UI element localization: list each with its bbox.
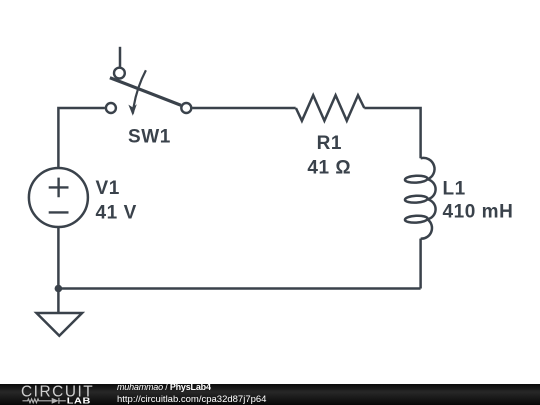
switch arrow arc	[133, 70, 146, 113]
switch arrowhead	[128, 104, 136, 116]
inductor L1	[405, 158, 436, 239]
bottom wire rail	[58, 287, 420, 290]
svg-text:R1: R1	[317, 133, 342, 154]
switch SW1 blade	[110, 78, 181, 106]
resistor R1	[296, 95, 364, 121]
wire top stub of switch	[119, 47, 122, 68]
switch pivot circle	[114, 68, 125, 79]
logo squiggle: wire, resistor, diode	[23, 398, 66, 404]
svg-text:LAB: LAB	[67, 396, 91, 405]
CircuitLab logo	[0, 384, 120, 405]
wire junction to ground	[57, 289, 60, 313]
footer text line 2	[117, 395, 266, 405]
wire from resistor to right corner down to inductor	[364, 108, 420, 158]
svg-text:SW1: SW1	[128, 127, 171, 148]
switch left contact	[106, 103, 116, 113]
footer bar	[0, 384, 540, 405]
svg-text:41 Ω: 41 Ω	[307, 157, 351, 178]
footer text line 1	[117, 383, 211, 393]
svg-text:410 mH: 410 mH	[443, 202, 514, 223]
svg-text:41 V: 41 V	[96, 202, 137, 223]
wire from right switch contact to resistor	[192, 107, 295, 110]
svg-text:L1: L1	[443, 179, 466, 200]
wire from inductor bottom to bottom rail	[419, 239, 422, 289]
ground	[37, 313, 83, 336]
switch right contact	[181, 103, 191, 113]
voltage source V1	[29, 168, 88, 227]
svg-text:V1: V1	[96, 178, 120, 199]
wire V1 bottom to junction	[57, 226, 60, 288]
wire from left switch contact to V1 top	[58, 108, 105, 168]
junction node	[55, 285, 63, 293]
